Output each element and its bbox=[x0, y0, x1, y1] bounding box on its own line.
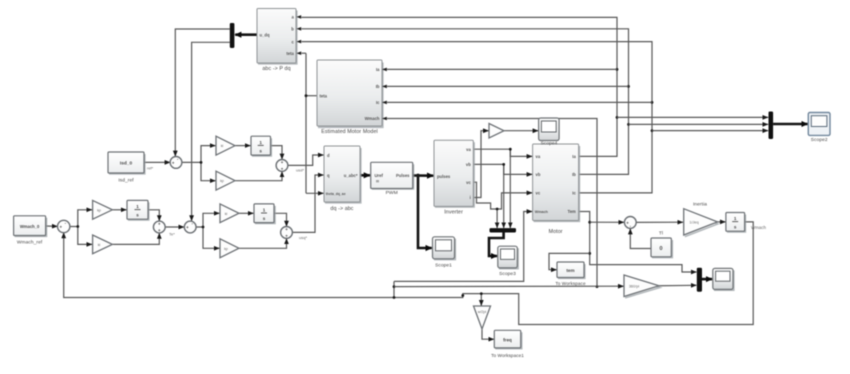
integrator 1/s isq bbox=[254, 204, 275, 224]
svg-text:Scope1: Scope1 bbox=[435, 263, 452, 269]
wire integrator to sum S3 top bbox=[274, 213, 287, 226]
wire demux out isq feedback to sum S6 top bbox=[192, 42, 230, 221]
wire tap Ic to estimated model bbox=[387, 101, 652, 103]
svg-text:usq*: usq* bbox=[299, 235, 307, 240]
svg-text:To Workspace1: To Workspace1 bbox=[491, 353, 524, 358]
svg-text:+: + bbox=[158, 221, 161, 226]
label isd ref bbox=[147, 165, 154, 170]
wire Tem branch to workspace tem bbox=[549, 253, 590, 269]
wire PWM to inverter and Scope1 thick bbox=[413, 174, 434, 248]
svg-text:Ib: Ib bbox=[572, 172, 576, 177]
wire tap Ic to mux3 bbox=[652, 130, 768, 132]
wire sum S7 to inertia gain bbox=[636, 221, 683, 223]
wire speed gain ki to sum S5 bottom bbox=[112, 233, 159, 244]
wire speed to gain 360pi bbox=[394, 285, 624, 287]
svg-text:Wmach_0: Wmach_0 bbox=[20, 224, 40, 229]
wire inverter va to motor va with tap bbox=[473, 148, 532, 228]
svg-text:Motor: Motor bbox=[549, 229, 563, 235]
svg-text:ki: ki bbox=[98, 243, 101, 247]
wire constant Tl to sum S7 bottom bbox=[630, 229, 651, 249]
wire speed loop long feedback bbox=[64, 222, 754, 325]
label wmach signal bbox=[751, 225, 766, 230]
wire inverter vc to motor vc with tap bbox=[473, 182, 532, 228]
subsystem Inverter bbox=[434, 140, 474, 215]
svg-text:s: s bbox=[263, 216, 266, 221]
wire tap Ib to estimated model bbox=[387, 85, 629, 87]
node teta vertical with branches bbox=[302, 53, 324, 193]
wire freq triangle to workspace freq bbox=[482, 329, 494, 339]
svg-text:ref*: ref* bbox=[147, 165, 154, 170]
wire Wmach_0 to sum S4 bbox=[46, 225, 58, 227]
wire speed gain kp to integrator bbox=[112, 209, 126, 211]
svg-text:s: s bbox=[259, 148, 262, 153]
wire S6 output branch to gains ki1 kp1 bbox=[196, 213, 220, 248]
sum S4 speed error bbox=[58, 220, 70, 232]
svg-text:Isd_0: Isd_0 bbox=[120, 161, 133, 167]
svg-text:Scope3: Scope3 bbox=[499, 271, 516, 277]
svg-text:tem: tem bbox=[566, 268, 574, 273]
svg-text:vc: vc bbox=[466, 180, 471, 185]
wire motor Ic wrap to abc block port c bbox=[302, 42, 654, 193]
svg-text:ki: ki bbox=[225, 212, 228, 216]
svg-text:360/pi: 360/pi bbox=[629, 285, 640, 289]
svg-text:+: + bbox=[281, 160, 284, 165]
constant Tl value 0 bbox=[651, 231, 672, 258]
label usq ref bbox=[299, 235, 307, 240]
wire u_abc* to PWM thick bbox=[360, 174, 370, 177]
wire S4 output branch to gains kp ki speed loop bbox=[69, 210, 92, 245]
wire mux2 to Scope3 thick bbox=[489, 232, 504, 256]
svg-text:1/Jeq: 1/Jeq bbox=[689, 221, 698, 225]
svg-text:Wmach_ref: Wmach_ref bbox=[17, 240, 43, 246]
scope Scope4 bbox=[539, 118, 560, 147]
label te ref bbox=[169, 231, 175, 236]
wire speed integrator to sum S5 top bbox=[148, 210, 159, 221]
to workspace freq bbox=[491, 330, 524, 358]
svg-text:+: + bbox=[60, 225, 63, 230]
svg-text:b: b bbox=[291, 27, 294, 32]
sum S6 isq error bbox=[184, 221, 196, 233]
svg-text:Wmach: Wmach bbox=[535, 210, 549, 214]
scope Scope2 bbox=[808, 113, 830, 144]
svg-text:i: i bbox=[470, 195, 471, 200]
gain 360/pi bbox=[624, 275, 660, 298]
svg-text:1: 1 bbox=[263, 207, 266, 212]
gain w to freq down triangle bbox=[474, 306, 491, 329]
svg-text:theta_dq_ae: theta_dq_ae bbox=[326, 192, 346, 196]
wire motor Tem down with branches bbox=[579, 212, 697, 273]
svg-text:To Workspace: To Workspace bbox=[555, 281, 586, 286]
svg-text:d: d bbox=[327, 153, 330, 158]
svg-text:kp: kp bbox=[220, 179, 224, 183]
wire demux out isd feedback to sum S1 top bbox=[175, 29, 230, 156]
source block Wmach_0 bbox=[14, 216, 47, 246]
subsystem dq to abc bbox=[324, 146, 361, 212]
integrator 1/s speed pi bbox=[127, 200, 149, 220]
wire mux4 to scope thick bbox=[702, 278, 712, 281]
gain ki speed bbox=[93, 235, 113, 254]
wire gain kp to sum S2 bottom bbox=[235, 172, 282, 181]
subsystem Estimated Motor Model bbox=[317, 60, 387, 135]
wire integrator to sum S2 top bbox=[271, 146, 283, 160]
svg-text:kp: kp bbox=[97, 208, 101, 212]
gain inertia 1/Jeq bbox=[684, 202, 718, 237]
wire inverter vb to motor vb with tap bbox=[473, 163, 532, 228]
svg-text:+: + bbox=[186, 225, 189, 230]
integrator 1/s mechanics bbox=[726, 213, 746, 233]
svg-text:1: 1 bbox=[734, 216, 737, 221]
label usd ref bbox=[296, 167, 304, 172]
scope Scope1 bbox=[433, 237, 456, 269]
svg-text:w/2pi: w/2pi bbox=[478, 310, 487, 314]
wire tap Ia to mux3 bbox=[617, 116, 768, 118]
svg-text:freq: freq bbox=[503, 338, 512, 343]
gain ki1 isq bbox=[220, 204, 239, 223]
svg-text:Estimated Motor Model: Estimated Motor Model bbox=[321, 129, 378, 135]
svg-text:u_abc*: u_abc* bbox=[344, 173, 358, 178]
svg-text:Scope2: Scope2 bbox=[811, 137, 828, 143]
svg-text:Pulses: Pulses bbox=[396, 173, 410, 178]
mux2 three phase bbox=[490, 228, 517, 232]
svg-text:PWM: PWM bbox=[386, 190, 398, 196]
wire Isd_0 to sum S1 bbox=[144, 161, 170, 163]
sum S5 speed pi bbox=[153, 221, 165, 233]
svg-text:Uref: Uref bbox=[375, 173, 384, 178]
gain kp1 isq bbox=[220, 239, 239, 258]
wire current gain to Scope4 bbox=[504, 130, 538, 132]
wire Tem branch to speed sum S7 bbox=[590, 221, 624, 223]
svg-text:Scope4: Scope4 bbox=[541, 141, 558, 147]
source block Isd_0 bbox=[108, 152, 145, 184]
wire motor Ib wrap to abc block port b bbox=[302, 29, 630, 175]
svg-text:Tem: Tem bbox=[567, 209, 576, 214]
mux4 bottom right bbox=[697, 268, 702, 292]
wire speed branch to freq triangle bbox=[480, 292, 483, 305]
wire tap Ia to estimated model bbox=[387, 68, 617, 70]
sum S2 usd bbox=[276, 160, 288, 172]
sum S3 usq bbox=[281, 227, 293, 239]
wire gain 360pi to mux4 bbox=[659, 284, 696, 286]
wire inertia gain to integrator bbox=[718, 221, 726, 223]
wire mux3 to Scope2 thick bbox=[773, 123, 807, 126]
block PWM bbox=[371, 162, 414, 196]
wire motor Ia wrap to abc block port a bbox=[302, 17, 619, 156]
to workspace tem bbox=[555, 262, 586, 286]
svg-text:q: q bbox=[327, 173, 330, 178]
svg-text:Wmach: Wmach bbox=[365, 116, 380, 121]
svg-text:vb: vb bbox=[466, 162, 471, 167]
wire abc block u_dq output to demux thick bbox=[235, 33, 257, 36]
svg-text:+: + bbox=[285, 227, 288, 232]
wire gain ki1 to integrator bbox=[239, 212, 253, 214]
svg-text:ki: ki bbox=[221, 144, 224, 148]
svg-text:vb: vb bbox=[536, 172, 541, 177]
svg-text:pulses: pulses bbox=[437, 174, 451, 179]
sum S1 isd bbox=[170, 157, 182, 169]
wire speed riser to estimated model wmach bbox=[387, 119, 598, 289]
svg-text:s: s bbox=[734, 225, 737, 230]
svg-text:0: 0 bbox=[660, 246, 663, 252]
svg-text:s: s bbox=[136, 213, 139, 218]
svg-text:teta: teta bbox=[320, 94, 328, 99]
svg-text:+: + bbox=[158, 228, 161, 233]
wire speed branch riser x394 bbox=[393, 281, 396, 299]
gain kp isd bbox=[216, 171, 235, 190]
svg-text:Isd_ref: Isd_ref bbox=[118, 178, 134, 184]
svg-text:va: va bbox=[536, 154, 541, 159]
svg-text:1: 1 bbox=[259, 140, 262, 145]
subsystem abc to P dq bbox=[257, 9, 301, 73]
svg-text:kp: kp bbox=[224, 247, 228, 251]
wire S1 output branch to gains ki kp bbox=[182, 146, 216, 181]
svg-text:Inertia: Inertia bbox=[693, 202, 707, 208]
gain ki isd bbox=[216, 136, 235, 155]
wire S5 to sum S6 bbox=[165, 226, 184, 228]
mux3 to scope2 bbox=[769, 112, 774, 140]
svg-text:+: + bbox=[285, 233, 288, 238]
svg-text:1: 1 bbox=[136, 204, 139, 209]
wire speed to motor wmach input bbox=[394, 212, 532, 282]
sum S7 torque bbox=[624, 217, 636, 229]
scope Scope3 bbox=[498, 246, 518, 277]
svg-text:Te*: Te* bbox=[169, 231, 175, 236]
svg-text:vc: vc bbox=[536, 191, 541, 196]
wire inverter i to current gain bbox=[473, 131, 488, 198]
gain current measure bbox=[489, 124, 504, 139]
wire gain kp1 to sum S3 bottom bbox=[239, 239, 287, 249]
wire usq* S3 to dq-abc q input bbox=[292, 175, 323, 232]
svg-text:Ib: Ib bbox=[376, 84, 380, 89]
svg-text:+: + bbox=[281, 166, 284, 171]
scope bottom right bbox=[713, 268, 734, 290]
svg-text:Wmach: Wmach bbox=[751, 225, 766, 230]
wire tap Ib to mux3 bbox=[629, 123, 769, 125]
svg-text:u_dq: u_dq bbox=[260, 33, 270, 38]
demux u_dq bbox=[230, 23, 235, 48]
svg-text:dq -> abc: dq -> abc bbox=[330, 206, 353, 212]
gain kp speed bbox=[93, 200, 113, 219]
integrator 1/s isd bbox=[251, 136, 271, 156]
svg-text:va: va bbox=[466, 147, 471, 152]
svg-text:teta: teta bbox=[286, 51, 294, 56]
svg-text:+: + bbox=[172, 161, 175, 166]
svg-text:Tl: Tl bbox=[659, 231, 663, 237]
wire usd* S2 to dq-abc d input bbox=[288, 155, 324, 165]
svg-text:usd*: usd* bbox=[296, 167, 304, 172]
svg-text:abc -> P dq: abc -> P dq bbox=[262, 66, 290, 72]
wire gain ki to integrator bbox=[235, 145, 250, 147]
svg-text:Inverter: Inverter bbox=[444, 210, 463, 216]
subsystem Motor bbox=[533, 144, 580, 235]
